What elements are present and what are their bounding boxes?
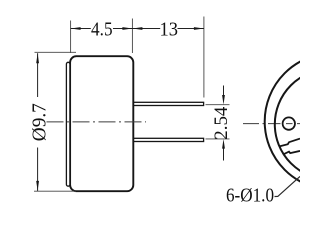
dimension line 4.5/13 middle segment (113, 28, 160, 30)
front view inner rim circle (275, 69, 320, 179)
dimension line 4.5 left segment (71, 28, 91, 30)
upper pin (134, 102, 204, 105)
dia 9.7 bottom extension line (34, 190, 76, 192)
front view outer circle (265, 53, 320, 190)
dia 9.7 arrowhead up (36, 53, 39, 63)
svg-text:Ø9.7: Ø9.7 (28, 103, 50, 141)
2.54 dimension tail above (223, 86, 225, 98)
front flange strip (66, 62, 70, 186)
dia 9.7 dimension line lower segment (37, 148, 39, 191)
2.54 arrowhead up (222, 139, 225, 149)
centerline through front view circle (243, 123, 300, 125)
svg-text:4.5: 4.5 (91, 19, 113, 41)
text 2.54 (rotated) (211, 106, 232, 139)
arrowhead right of 4.5 at shared line (122, 27, 132, 30)
text dia 9.7 (rotated) (28, 103, 50, 141)
2.54 dimension tail below (223, 147, 225, 161)
lower kinked pin (pictorial) (283, 151, 300, 155)
extension line left of 4.5 (70, 21, 72, 54)
dia 9.7 top extension line (35, 51, 77, 53)
upper kinked pin (pictorial) (279, 139, 300, 147)
2.54 arrowhead down (222, 95, 225, 105)
sound hole (283, 117, 295, 129)
dimension line 13 right segment (178, 28, 204, 30)
arrowhead right at 13 (194, 27, 204, 30)
microphone body (side view can) (70, 56, 133, 191)
svg-text:6-Ø1.0: 6-Ø1.0 (226, 185, 274, 207)
arrowhead left at 4.5 (71, 27, 81, 30)
leader line for 6-dia1.0 (275, 176, 301, 196)
2.54 bottom extension line (206, 138, 230, 140)
centerline through side view (47, 121, 147, 123)
dia 9.7 dimension line upper segment (37, 53, 39, 97)
extension line shared 4.5/13 (131, 19, 133, 54)
arrowhead left of 13 at shared line (132, 27, 142, 30)
dia 9.7 arrowhead down (36, 181, 39, 191)
svg-text:13: 13 (160, 19, 179, 41)
extension line right of 13 (pin end) (203, 17, 205, 98)
svg-text:2.54: 2.54 (211, 106, 232, 139)
lower pin (134, 138, 204, 141)
2.54 top extension line (206, 104, 230, 106)
